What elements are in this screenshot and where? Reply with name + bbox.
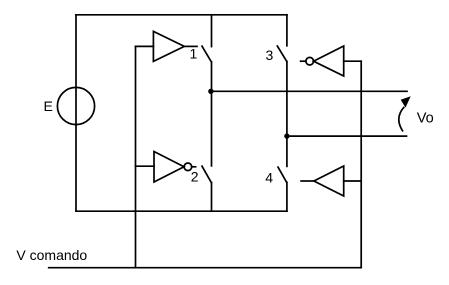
wire switch 3 bottom to switch 4 top [286, 62, 288, 167]
Vo arrow [399, 96, 411, 131]
switch 2 blade [202, 166, 211, 183]
op-amp buffer U1 [153, 31, 184, 61]
svg-text:V comando: V comando [16, 247, 87, 263]
switch 1 blade [202, 46, 211, 62]
wire bottom rail [76, 210, 287, 212]
wire switch 2 bottom [211, 183, 213, 212]
wire inverter 2 input [136, 165, 155, 167]
wire buffer 4 input [344, 180, 362, 182]
svg-text:E: E [44, 98, 53, 114]
inverter U2 [154, 152, 184, 183]
svg-text:3: 3 [266, 47, 274, 63]
node A junction dot [208, 89, 213, 94]
inverter U2 bubble [184, 163, 192, 171]
wire inverter 3 input [344, 60, 362, 62]
node B junction dot [284, 133, 289, 138]
op-amp buffer U4 [314, 166, 344, 196]
wire left vertical [75, 15, 77, 211]
wire buffer 1 output [184, 45, 197, 47]
wire top rail [76, 14, 287, 16]
wire output node B [287, 135, 407, 137]
svg-text:Vo: Vo [417, 111, 434, 127]
wire switch 3 top [286, 15, 288, 46]
wire V comando line [49, 267, 362, 269]
wire switch 4 bottom [286, 182, 288, 211]
wire buffer 4 output stub [301, 180, 314, 182]
wire control riser left [135, 46, 137, 267]
wire output node A [212, 90, 408, 92]
wire inverter 2 output stub [192, 166, 196, 168]
wire inverter 3 output stub [301, 60, 306, 62]
wire buffer 1 input [136, 45, 154, 47]
switch 3 blade [277, 46, 287, 62]
svg-text:1: 1 [190, 45, 198, 61]
inverter U3 bubble [306, 57, 314, 65]
inverter U3 [314, 46, 344, 76]
source E [57, 87, 94, 124]
svg-text:4: 4 [265, 169, 273, 185]
svg-text:2: 2 [191, 168, 199, 184]
switch 4 blade [278, 167, 287, 182]
wire switch 1 top [211, 15, 213, 47]
wire switch 1 bottom to switch 2 top [211, 62, 213, 166]
wire control rail right [360, 61, 362, 268]
